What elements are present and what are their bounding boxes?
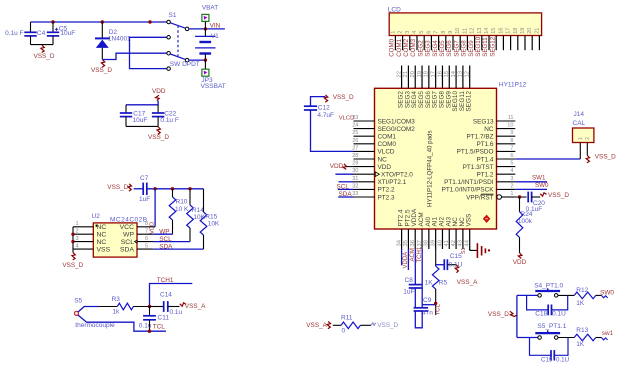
LCD pin 2 bbox=[402, 36, 404, 51]
svg-text:SEG8: SEG8 bbox=[461, 40, 468, 57]
svg-text:3: 3 bbox=[76, 236, 79, 242]
svg-text:7: 7 bbox=[434, 31, 440, 34]
svg-text:R5: R5 bbox=[439, 280, 448, 287]
svg-text:32: 32 bbox=[352, 183, 358, 189]
resistor R24 100k bbox=[516, 197, 533, 253]
svg-text:VDDA: VDDA bbox=[403, 252, 409, 269]
U1 pin 29 VDD bbox=[354, 166, 375, 168]
svg-text:VLCD: VLCD bbox=[378, 149, 395, 156]
diode D2 1N4001 bbox=[95, 22, 131, 60]
U1 pin 20 SEG4 bbox=[414, 66, 416, 89]
capacitor C4 0.1uF bbox=[5, 22, 46, 45]
ground VSS_D at C7 bbox=[107, 184, 131, 191]
svg-text:SEG7: SEG7 bbox=[453, 40, 460, 57]
power VDD above C22 bbox=[152, 88, 166, 100]
capacitor C15 0.1U bbox=[444, 253, 462, 270]
svg-text:1uF: 1uF bbox=[403, 288, 414, 295]
capacitor C18 0.1U (parallel S4) bbox=[527, 295, 568, 317]
svg-text:VLCD: VLCD bbox=[339, 116, 355, 122]
wire C7 to pullup rail bbox=[147, 188, 204, 190]
resistor R12 1K bbox=[574, 287, 601, 307]
svg-text:PT1.1/INT1/PSDI: PT1.1/INT1/PSDI bbox=[444, 179, 494, 186]
svg-text:C12: C12 bbox=[318, 105, 330, 112]
power VDD to pin 29 bbox=[330, 163, 354, 170]
battery V1 bbox=[195, 29, 219, 60]
svg-text:HY11P12-LQFP44_40 pads: HY11P12-LQFP44_40 pads bbox=[427, 130, 434, 207]
svg-text:0.1U: 0.1U bbox=[552, 311, 566, 318]
node junction U2 pin3 bbox=[71, 240, 74, 243]
ground VSS_D at C12 bbox=[324, 94, 354, 102]
svg-text:COM2: COM2 bbox=[403, 38, 410, 56]
ground VSS_A after C15 bbox=[455, 265, 478, 286]
node junction battery bottom bbox=[204, 58, 207, 61]
node junction R14 top bbox=[188, 187, 191, 190]
svg-text:13: 13 bbox=[458, 71, 464, 77]
svg-text:SDA: SDA bbox=[339, 191, 353, 198]
svg-text:VCC: VCC bbox=[120, 224, 134, 231]
svg-text:SEG0/COM2: SEG0/COM2 bbox=[378, 126, 416, 133]
U1 pin 30 XTO/PT2.0 bbox=[354, 173, 375, 175]
U1 pin 31 XTI/PT2.1 bbox=[354, 181, 375, 183]
capacitor C9 47n bbox=[414, 297, 434, 317]
svg-text:27: 27 bbox=[352, 145, 358, 151]
svg-text:31: 31 bbox=[352, 176, 358, 182]
U1 pin 11 SEG13 bbox=[497, 120, 516, 122]
power VSS_D right of R11 (blue) bbox=[371, 322, 399, 329]
svg-text:2: 2 bbox=[510, 183, 513, 189]
svg-text:17: 17 bbox=[506, 28, 512, 34]
U2 pin 6 mark bbox=[135, 240, 138, 244]
U1 pin 36 VDDA bbox=[414, 229, 416, 249]
svg-text:SW DPDT: SW DPDT bbox=[170, 61, 200, 68]
svg-text:17: 17 bbox=[430, 71, 436, 77]
U1 pin 1 VPP/RST bbox=[502, 196, 516, 198]
wire sw1 stub hook bbox=[601, 338, 607, 340]
svg-text:1: 1 bbox=[510, 191, 513, 197]
connector J14 CAL bbox=[573, 111, 594, 159]
capacitor C7 1uF bbox=[139, 175, 150, 203]
capacitor C20 0.1uF bbox=[526, 192, 546, 213]
svg-text:NC: NC bbox=[97, 239, 107, 246]
svg-text:11: 11 bbox=[508, 115, 514, 121]
node junction battery top bbox=[204, 27, 207, 30]
U1 pin 25 COM1 bbox=[354, 135, 375, 137]
svg-text:5: 5 bbox=[419, 31, 425, 34]
svg-text:7: 7 bbox=[510, 145, 513, 151]
wire SCL pin 32 stub bbox=[338, 188, 354, 190]
LCD pin 4 bbox=[416, 36, 418, 51]
LCD pin 7 bbox=[438, 36, 440, 51]
svg-text:8: 8 bbox=[510, 138, 513, 144]
svg-text:37: 37 bbox=[417, 240, 423, 246]
svg-text:21: 21 bbox=[403, 71, 409, 77]
svg-text:COM0: COM0 bbox=[378, 141, 397, 148]
svg-text:XTI/PT2.1: XTI/PT2.1 bbox=[378, 179, 407, 186]
svg-text:0.1u: 0.1u bbox=[139, 322, 152, 329]
LCD pin 16 bbox=[502, 36, 504, 51]
wire SDA pin 33 stub bbox=[338, 196, 353, 198]
svg-text:VSS_D: VSS_D bbox=[548, 192, 569, 199]
svg-text:NC: NC bbox=[484, 126, 494, 133]
svg-text:33: 33 bbox=[352, 191, 358, 197]
svg-text:VSS: VSS bbox=[466, 214, 473, 227]
capacitor C19 0.1U (parallel S5) bbox=[530, 338, 570, 364]
U1 pin 41 AI3 bbox=[448, 229, 450, 249]
svg-text:VSS_D: VSS_D bbox=[148, 134, 169, 141]
wire SW0 stub hook bbox=[601, 295, 607, 297]
svg-text:22: 22 bbox=[396, 71, 402, 77]
svg-text:R13: R13 bbox=[576, 327, 588, 334]
svg-text:12: 12 bbox=[465, 71, 471, 77]
wire XTI pin 31 stub bbox=[339, 181, 354, 183]
wire pin 44 VSS to ground bbox=[469, 249, 471, 250]
svg-text:MC24C02B: MC24C02B bbox=[110, 217, 148, 224]
svg-text:VSS_D: VSS_D bbox=[595, 154, 616, 161]
svg-text:C9: C9 bbox=[423, 297, 432, 304]
capacitor C14 0.1u bbox=[150, 292, 183, 316]
svg-text:1K: 1K bbox=[576, 300, 585, 307]
svg-text:TCL: TCL bbox=[153, 323, 166, 330]
ground VSS_D below C4/C5 bbox=[34, 45, 55, 60]
svg-text:R24: R24 bbox=[521, 211, 533, 218]
svg-text:S4_PT1.0: S4_PT1.0 bbox=[534, 283, 563, 290]
wire rail to S5 left bbox=[517, 337, 538, 339]
connector VBAT (test point) bbox=[202, 5, 218, 29]
wire S4 right to R12 bbox=[558, 294, 574, 296]
svg-text:30: 30 bbox=[352, 168, 358, 174]
svg-text:VDD: VDD bbox=[378, 164, 392, 171]
U1 pin 4 PT1.2 bbox=[497, 173, 516, 175]
svg-text:VSS_D: VSS_D bbox=[62, 262, 83, 269]
LCD pin 15 bbox=[495, 36, 497, 51]
svg-text:WP: WP bbox=[123, 232, 134, 239]
logo (red diamond) bbox=[483, 215, 491, 223]
svg-text:43: 43 bbox=[458, 240, 464, 246]
svg-text:100k: 100k bbox=[518, 218, 533, 225]
svg-text:R15: R15 bbox=[205, 213, 217, 220]
U1 pin 26 COM0 bbox=[354, 143, 375, 145]
svg-text:35: 35 bbox=[403, 240, 409, 246]
svg-text:VIN: VIN bbox=[210, 22, 221, 29]
svg-text:VSS_A: VSS_A bbox=[457, 279, 478, 286]
node junction R5 bottom / TCL bbox=[434, 302, 437, 305]
svg-text:47n: 47n bbox=[422, 310, 433, 317]
svg-text:VSS_D: VSS_D bbox=[488, 311, 509, 318]
node junction at D2 top bbox=[101, 20, 104, 23]
svg-text:COM1: COM1 bbox=[396, 38, 403, 56]
svg-text:R11: R11 bbox=[341, 315, 353, 322]
ground VSS_D at J14 pin 2 bbox=[586, 154, 616, 163]
U1 pin 30 clock mark bbox=[375, 172, 379, 177]
svg-text:SEG1/COM3: SEG1/COM3 bbox=[378, 118, 416, 125]
svg-text:VPP/RST: VPP/RST bbox=[466, 194, 493, 201]
svg-text:R14: R14 bbox=[192, 207, 204, 214]
svg-text:26: 26 bbox=[352, 138, 358, 144]
svg-text:SW0: SW0 bbox=[535, 182, 549, 189]
node junction near S1 bbox=[148, 20, 151, 23]
ground VSS_D below U2 bbox=[62, 253, 83, 269]
LCD pin 8 bbox=[445, 36, 447, 51]
svg-text:SEG12: SEG12 bbox=[489, 36, 496, 57]
U1 pin 38 AI0 bbox=[428, 229, 430, 249]
svg-text:PT1.7/BZ: PT1.7/BZ bbox=[467, 134, 494, 141]
svg-text:44: 44 bbox=[465, 239, 471, 246]
LCD pin 10 bbox=[459, 36, 461, 51]
svg-text:19: 19 bbox=[520, 28, 526, 34]
svg-text:16: 16 bbox=[437, 71, 443, 77]
wire pin 34 stub bbox=[401, 249, 403, 265]
capacitor C22 0.1uF bbox=[152, 105, 179, 127]
svg-text:VSS_D: VSS_D bbox=[91, 67, 112, 74]
wire TCH1 stub bbox=[150, 284, 193, 307]
svg-text:0.1u F: 0.1u F bbox=[5, 30, 23, 37]
svg-text:SEG12: SEG12 bbox=[466, 91, 473, 112]
svg-text:WP: WP bbox=[159, 229, 169, 236]
LCD pin 1 bbox=[394, 36, 396, 51]
svg-text:1k: 1k bbox=[112, 308, 120, 315]
svg-text:0.1U: 0.1U bbox=[449, 262, 463, 269]
svg-text:10: 10 bbox=[507, 123, 513, 129]
svg-text:3: 3 bbox=[510, 176, 513, 182]
LCD pin 17 bbox=[510, 36, 512, 51]
svg-text:4: 4 bbox=[510, 168, 513, 174]
ground VSS_D below C22 bbox=[148, 127, 169, 141]
U1 pin 15 SEG9 bbox=[448, 66, 450, 89]
U1 pin 1 RST bubble bbox=[497, 195, 502, 200]
svg-text:39: 39 bbox=[430, 240, 436, 246]
svg-text:PT1.2: PT1.2 bbox=[476, 172, 493, 179]
svg-text:C18: C18 bbox=[535, 311, 547, 318]
svg-text:1: 1 bbox=[390, 31, 396, 34]
U1 pin 5 PT1.3/TST bbox=[497, 166, 516, 168]
wire pin 3 SW1 bbox=[515, 181, 547, 183]
svg-text:9: 9 bbox=[448, 31, 454, 34]
svg-text:SEG6: SEG6 bbox=[446, 40, 453, 57]
LCD pin 13 bbox=[481, 36, 483, 51]
svg-text:0.1U: 0.1U bbox=[556, 357, 569, 364]
U1 pin 12 SEG12 bbox=[469, 66, 471, 89]
svg-text:R10: R10 bbox=[176, 199, 188, 206]
wire D2 anode to switch contact 3 bbox=[102, 53, 166, 59]
U1 pin 19 SEG5 bbox=[421, 66, 423, 89]
U1 pin 17 SEG7 bbox=[435, 66, 437, 89]
wire top rail from C4 to switch S1 bbox=[31, 21, 167, 23]
svg-text:9: 9 bbox=[510, 130, 513, 136]
node junction R3/C11/C14 bbox=[148, 305, 151, 308]
capacitor C8 1uF bbox=[403, 277, 422, 295]
svg-text:18: 18 bbox=[424, 71, 430, 77]
wire U2 pin6 SCL to R14 bbox=[153, 241, 190, 243]
ground VSS_A left of R11 bbox=[306, 321, 330, 328]
resistor R13 1K bbox=[574, 327, 601, 348]
wire joining switch contacts 2 and 4 bbox=[130, 37, 167, 68]
MCU U1 HY11P12-LQFP44 bbox=[352, 66, 526, 250]
svg-text:2: 2 bbox=[585, 137, 591, 140]
connector JP3 VSSBAT bbox=[201, 60, 226, 90]
svg-text:ACM: ACM bbox=[410, 248, 416, 261]
node junction R24 top bbox=[518, 195, 521, 198]
svg-text:LCD: LCD bbox=[388, 6, 401, 13]
wire pin 1 VPP/RST bbox=[504, 196, 527, 198]
svg-text:SCL: SCL bbox=[159, 236, 172, 243]
wire C4 to C5 bottom bbox=[31, 44, 54, 46]
svg-text:38: 38 bbox=[424, 240, 430, 246]
svg-text:R12: R12 bbox=[576, 287, 588, 294]
U1 pin 24 SEG0/COM2 bbox=[354, 128, 375, 130]
ground (earth) at pin 44 bbox=[477, 243, 490, 258]
svg-text:PT2.2: PT2.2 bbox=[378, 187, 395, 194]
svg-text:PT1.5/PSDO: PT1.5/PSDO bbox=[457, 149, 494, 156]
U1 pin 9 PT1.7/BZ bbox=[497, 135, 516, 137]
resistor R10 10K bbox=[169, 189, 189, 234]
wire rail to S4 left bbox=[517, 294, 538, 296]
node junction R10 top bbox=[171, 187, 174, 190]
resistor R11 0 ohm bbox=[333, 315, 371, 335]
U1 pin 3 PT1.1/INT1/PSDI bbox=[497, 181, 516, 183]
wire thermocouple bottom lead / TCL net bbox=[78, 315, 166, 331]
svg-text:VSS_A: VSS_A bbox=[306, 322, 327, 329]
svg-text:U2: U2 bbox=[92, 213, 101, 220]
wire pin 36 to C8 bbox=[414, 249, 416, 285]
wire VCC pin to rail (net VDD) bbox=[154, 189, 156, 227]
U1 pin 21 SEG3 bbox=[407, 66, 409, 89]
U1 pin 14 SEG10 bbox=[455, 66, 457, 89]
push button S5 PT1.1 bbox=[535, 323, 566, 339]
svg-text:1uF: 1uF bbox=[139, 196, 150, 203]
svg-text:18: 18 bbox=[513, 28, 519, 34]
svg-text:14: 14 bbox=[484, 28, 490, 34]
svg-text:1K: 1K bbox=[425, 280, 434, 287]
svg-text:COM3: COM3 bbox=[410, 38, 417, 56]
resistor R14 10K bbox=[187, 189, 206, 242]
wire ground rail for buttons bbox=[516, 295, 518, 337]
wire XTO pin 30 stub bbox=[335, 173, 353, 175]
node junction U2 pin2 bbox=[71, 233, 74, 236]
svg-text:SEG13: SEG13 bbox=[473, 118, 494, 125]
svg-text:SEG3: SEG3 bbox=[425, 40, 432, 57]
svg-text:42: 42 bbox=[451, 240, 457, 246]
svg-text:thermocouple: thermocouple bbox=[75, 322, 115, 329]
capacitor C17 10uF bbox=[120, 105, 148, 127]
ground VSS_A after C14 bbox=[180, 303, 206, 310]
svg-text:PT1.4: PT1.4 bbox=[476, 156, 493, 163]
ground VSS_D at button rail bbox=[488, 311, 517, 318]
svg-text:1: 1 bbox=[578, 137, 584, 140]
U1 pin 2 PT1.0/INT0/PSCK bbox=[497, 188, 516, 190]
svg-text:J14: J14 bbox=[574, 111, 585, 118]
U1 pin 16 SEG8 bbox=[441, 66, 443, 89]
svg-text:VDD: VDD bbox=[150, 222, 156, 234]
svg-text:C14: C14 bbox=[160, 292, 172, 299]
svg-text:PT1.3/TST: PT1.3/TST bbox=[463, 164, 494, 171]
svg-text:SCL: SCL bbox=[121, 239, 134, 246]
U1 pin 10 NC bbox=[497, 128, 516, 130]
svg-text:PT1.0/INT0/PSCK: PT1.0/INT0/PSCK bbox=[442, 187, 495, 194]
svg-text:SEG4: SEG4 bbox=[432, 40, 439, 57]
U1 pin 6 PT1.4 bbox=[497, 158, 516, 160]
svg-text:4.7uF: 4.7uF bbox=[317, 112, 334, 119]
LCD pin 21 bbox=[538, 36, 540, 51]
svg-text:C19: C19 bbox=[541, 357, 553, 364]
svg-text:20: 20 bbox=[527, 28, 533, 34]
svg-text:SDA: SDA bbox=[159, 243, 173, 250]
resistor R15 10K bbox=[200, 189, 220, 249]
svg-text:0: 0 bbox=[342, 327, 346, 334]
svg-text:13: 13 bbox=[477, 28, 483, 34]
svg-text:VDD: VDD bbox=[152, 88, 166, 95]
power VDD below R24 bbox=[513, 253, 527, 266]
svg-text:8: 8 bbox=[441, 31, 447, 34]
svg-text:0.1u F: 0.1u F bbox=[160, 117, 178, 124]
wire U2 pin7 WP to R10 bbox=[153, 233, 172, 235]
svg-text:CAL: CAL bbox=[573, 120, 586, 127]
LCD pin 5 bbox=[423, 36, 425, 51]
wire pin 37 to C9/TCL node bbox=[421, 249, 423, 308]
U1 pin 44 VSS bbox=[469, 229, 471, 249]
svg-text:C4: C4 bbox=[37, 30, 46, 37]
svg-text:VSS_D: VSS_D bbox=[34, 53, 55, 60]
IC U2 MC24C02B bbox=[73, 213, 153, 257]
wire C12 to VLCD pin 27 bbox=[311, 110, 354, 151]
U1 pin 27 VLCD bbox=[354, 150, 375, 152]
LCD pin 3 bbox=[409, 36, 411, 51]
switch S1 SW DPDT bbox=[167, 12, 200, 70]
LCD pin 6 bbox=[430, 36, 432, 51]
U1 pin 37 ACM bbox=[421, 229, 423, 249]
wire C8 to C9 bbox=[414, 288, 416, 308]
svg-text:15: 15 bbox=[444, 71, 450, 77]
resistor R3 1k bbox=[99, 296, 150, 316]
svg-text:NC: NC bbox=[97, 232, 107, 239]
svg-text:VSSBAT: VSSBAT bbox=[201, 83, 226, 90]
LCD pin 20 bbox=[531, 36, 533, 51]
svg-text:28: 28 bbox=[352, 153, 358, 159]
LCD pin 9 bbox=[452, 36, 454, 51]
svg-text:SEG5: SEG5 bbox=[439, 40, 446, 57]
wire pin 6 PT1.4 to J14 bbox=[515, 158, 580, 160]
wire pin37 to R5 bottom node bbox=[422, 304, 436, 306]
svg-text:SW1: SW1 bbox=[532, 174, 546, 181]
svg-text:S5_PT1.1: S5_PT1.1 bbox=[537, 323, 566, 330]
capacitor C11 0.1u bbox=[139, 307, 170, 332]
svg-text:R3: R3 bbox=[112, 296, 121, 303]
LCD pin 14 bbox=[488, 36, 490, 51]
svg-text:16: 16 bbox=[498, 28, 504, 34]
svg-text:S1: S1 bbox=[169, 12, 177, 19]
U1 pin 7 PT1.5/PSDO bbox=[497, 150, 516, 152]
svg-text:VSS_D: VSS_D bbox=[107, 184, 128, 191]
svg-text:VBAT: VBAT bbox=[202, 5, 218, 12]
svg-text:10uF: 10uF bbox=[133, 117, 148, 124]
svg-text:2: 2 bbox=[398, 31, 404, 34]
capacitor C5 10uF (polarized) bbox=[47, 22, 75, 45]
svg-text:NC: NC bbox=[97, 224, 107, 231]
svg-text:TCH1: TCH1 bbox=[417, 246, 423, 262]
U1 pin 1 RST overline bbox=[481, 193, 494, 195]
wire U2 NC/VSS pins common to ground bbox=[72, 227, 74, 253]
node junction at C5 top bbox=[51, 20, 54, 23]
svg-text:6: 6 bbox=[426, 31, 432, 34]
wire pin 35 stub (VDDA) bbox=[407, 249, 409, 270]
U1 pin 22 SEG2 bbox=[401, 66, 403, 89]
svg-text:XTO/PT2.0: XTO/PT2.0 bbox=[381, 172, 413, 179]
svg-text:TCL: TCL bbox=[435, 304, 441, 316]
svg-text:34: 34 bbox=[396, 239, 402, 246]
resistor R5 1K bbox=[425, 249, 448, 315]
svg-text:NC: NC bbox=[378, 156, 388, 163]
svg-text:C8: C8 bbox=[405, 277, 414, 284]
svg-text:4: 4 bbox=[76, 244, 79, 250]
